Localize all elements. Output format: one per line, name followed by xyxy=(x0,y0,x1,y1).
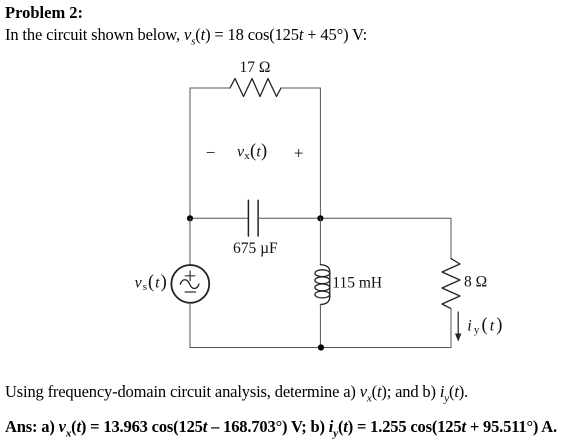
svg-text:vs(t): vs(t) xyxy=(135,273,168,294)
node dot left xyxy=(187,215,193,221)
source sine wave xyxy=(180,280,199,289)
answer line xyxy=(5,419,557,439)
wire middle vertical upper xyxy=(319,88,321,218)
node dot middle xyxy=(317,215,323,221)
problem statement xyxy=(5,27,367,47)
svg-text:vx(t): vx(t) xyxy=(237,142,267,163)
question line xyxy=(5,384,468,404)
svg-text:17 Ω: 17 Ω xyxy=(240,59,271,76)
svg-text:115 mH: 115 mH xyxy=(332,275,382,292)
wire top-left segment xyxy=(190,87,230,89)
svg-text:iy(t): iy(t) xyxy=(467,316,504,337)
wire bottom xyxy=(190,347,451,349)
resistor R1 17ohm zigzag xyxy=(230,79,281,97)
svg-text:8 Ω: 8 Ω xyxy=(464,274,487,291)
svg-text:−: − xyxy=(206,143,216,162)
svg-text:675 µF: 675 µF xyxy=(233,240,278,257)
wire left vertical to source xyxy=(189,218,191,265)
source plus mark xyxy=(185,271,195,281)
current arrow iy xyxy=(455,312,461,342)
wire top-right segment xyxy=(281,87,320,89)
resistor R2 8ohm zigzag xyxy=(442,259,460,309)
wire middle vertical lower xyxy=(319,305,321,348)
wire left vertical upper xyxy=(189,88,191,218)
voltage source VS circle xyxy=(171,265,209,303)
wire capacitor row left xyxy=(190,217,248,219)
wire capacitor row right xyxy=(258,217,451,219)
wire right vertical upper xyxy=(450,218,452,258)
wire left vertical lower xyxy=(189,303,191,348)
source minus mark xyxy=(185,291,195,293)
capacitor C1 plates xyxy=(248,200,258,236)
wire right vertical lower xyxy=(450,309,452,348)
inductor L1 coil xyxy=(315,265,330,305)
svg-text:+: + xyxy=(294,143,304,162)
wire middle vertical to inductor xyxy=(319,218,321,264)
node dot bottom xyxy=(318,344,324,350)
problem title xyxy=(5,5,83,22)
